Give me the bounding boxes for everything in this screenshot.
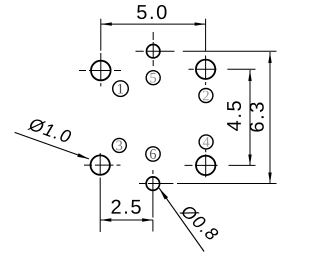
dimension text 2.5 xyxy=(112,200,141,214)
hole H3 (pin 3, dia 1.0) xyxy=(91,155,110,174)
centerline H5 vertical xyxy=(152,32,154,66)
dimension line 5.0 with arrowheads xyxy=(101,22,206,25)
centerline H4 vertical xyxy=(205,149,207,177)
pin label 1 xyxy=(113,81,129,97)
pin label 6 xyxy=(146,147,160,161)
pin label 4 xyxy=(199,135,213,149)
hole H1 (pin 1, dia 1.0) xyxy=(91,61,111,81)
dimension text 6.3 xyxy=(250,102,264,131)
dimension text 5.0 xyxy=(137,5,166,19)
diameter label 0.8 xyxy=(179,203,219,242)
centerline H1 horizontal xyxy=(79,70,121,72)
centerline H6 vertical (extension for 2.5 dim) xyxy=(152,170,154,232)
dimension line 4.5 with arrowheads xyxy=(248,70,251,166)
centerline H2 horizontal (extension for 4.5 dim) xyxy=(189,68,256,70)
centerline H1 vertical (extension for 5.0 dim) xyxy=(100,19,102,87)
pin label 2 xyxy=(199,89,213,103)
leader line for dia 1.0 with arrowhead xyxy=(15,132,90,159)
diameter label 1.0 xyxy=(27,117,72,144)
centerline H5 horizontal (extension for 6.3 dim) xyxy=(136,50,277,52)
hole H4 (pin 4, dia 1.0) xyxy=(196,156,215,175)
pin label 5 xyxy=(146,71,160,85)
hole H2 (pin 2, dia 1.0) xyxy=(196,60,215,79)
hole H5 (pin 5, dia 0.8) xyxy=(147,45,160,58)
centerline H6 horizontal (extension for 6.3 dim) xyxy=(139,183,277,185)
pin label 3 xyxy=(112,138,126,152)
dimension line 2.5 with arrowheads xyxy=(100,218,153,221)
dimension line 6.3 with arrowheads xyxy=(268,52,271,184)
dimension text 4.5 xyxy=(227,101,241,131)
centerline H3 vertical (extension for 2.5 dim) xyxy=(99,153,101,232)
leader line for dia 0.8 with arrowhead xyxy=(159,188,204,251)
centerline H4 horizontal (extension for 4.5 dim) xyxy=(185,164,256,166)
centerline H2 vertical (extension for 5.0 dim) xyxy=(205,19,207,85)
hole H6 (pin 6, dia 0.8) xyxy=(146,177,159,190)
centerline H3 horizontal xyxy=(84,164,121,166)
